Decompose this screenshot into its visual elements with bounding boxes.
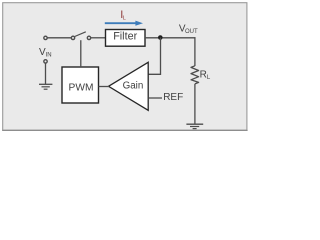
wire: RL to ground xyxy=(194,84,196,124)
junction: output node xyxy=(158,35,163,40)
wire: gain output to PWM xyxy=(99,86,110,88)
svg-text:OUT: OUT xyxy=(185,29,198,35)
label RL xyxy=(200,70,211,82)
label VIN xyxy=(39,47,52,59)
wire: REF input xyxy=(149,97,162,99)
svg-text:Gain: Gain xyxy=(123,80,144,91)
wire: PWM to switch control xyxy=(80,40,82,67)
svg-text:IN: IN xyxy=(46,52,52,58)
ground (load) xyxy=(186,124,203,128)
svg-text:R: R xyxy=(200,70,207,81)
svg-text:REF: REF xyxy=(163,92,183,103)
svg-text:L: L xyxy=(123,16,126,22)
block: PWM xyxy=(62,67,99,103)
terminal: VIN plus xyxy=(44,36,47,39)
wire: filter to output corner xyxy=(145,37,196,39)
terminal: VIN minus xyxy=(44,60,47,63)
wire: feedback from output node to gain input xyxy=(149,38,161,75)
label VOUT xyxy=(179,23,198,35)
label IL xyxy=(120,9,126,21)
op-amp: Gain error amplifier xyxy=(109,62,149,110)
ground (input) xyxy=(39,84,52,89)
current arrow IL xyxy=(105,21,143,26)
svg-text:PWM: PWM xyxy=(69,83,94,94)
wire: VIN+ to switch xyxy=(48,37,72,39)
wire: switch to filter xyxy=(91,37,106,39)
resistor RL xyxy=(191,66,199,84)
block: Filter xyxy=(106,30,146,47)
switch SW xyxy=(71,32,90,40)
wire: output node down to RL xyxy=(194,37,196,66)
svg-text:Filter: Filter xyxy=(113,31,137,43)
wire: VIN- to ground xyxy=(45,63,47,84)
